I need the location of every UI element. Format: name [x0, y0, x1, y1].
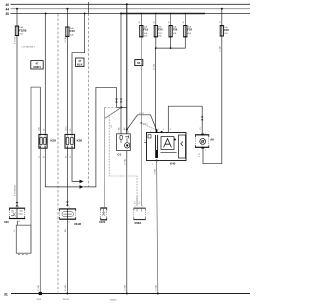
svg-text:16: 16 [18, 221, 20, 223]
svg-text:X58/1: X58/1 [134, 221, 142, 225]
svg-text:( 15 RD/WS ): ( 15 RD/WS ) [22, 47, 35, 49]
node on bus3 x84.6 [84, 13, 86, 15]
svg-text:125.3: 125.3 [143, 124, 149, 126]
node x126.8 y129.6 [126, 129, 128, 131]
K40 bottom pin [156, 160, 158, 162]
node x157.8 ground [157, 293, 159, 295]
fuse F19 [140, 26, 149, 38]
wire from arrow to riser [84, 87, 117, 187]
svg-text:1: 1 [142, 206, 143, 208]
fuse F43 labels [70, 27, 75, 36]
shielded branch bracket [109, 117, 137, 197]
svg-text:30: 30 [168, 21, 170, 23]
svg-text:4: 4 [150, 131, 151, 133]
svg-text:2: 2 [205, 150, 206, 152]
diagonal to shielded branch [105, 107, 122, 118]
fuse F32/8 [15, 26, 18, 35]
svg-text:1.5 BN: 1.5 BN [125, 158, 127, 165]
fuse top wire labels [139, 21, 185, 23]
wire X30 to ground box [16, 221, 18, 225]
svg-text:61: 61 [137, 61, 141, 65]
connector tick on wire x17 [16, 202, 19, 206]
fuse rail [156, 37, 186, 130]
fuse F53 [184, 26, 193, 37]
svg-text:47: 47 [78, 59, 81, 63]
dashed boundary x88.4 [87, 14, 89, 187]
svg-text:F24: F24 [158, 28, 163, 32]
svg-text:W66/4: W66/4 [110, 300, 117, 302]
svg-text:30: 30 [183, 21, 185, 23]
node on bus2 x17 [16, 8, 18, 10]
bus 15 (top rail 3) [11, 13, 251, 15]
svg-text:1: 1 [118, 132, 119, 134]
svg-text:OGU: OGU [66, 126, 68, 131]
relay K58 [39, 134, 47, 148]
svg-text:W10: W10 [37, 299, 42, 301]
fuse F24 [154, 26, 163, 38]
wire drop to fuse F58 [221, 9, 223, 26]
wire K58 right bottom to connector arrow [45, 148, 79, 187]
fuse F43 [66, 27, 69, 36]
wire stub above bus1 x88.4 [87, 2, 89, 14]
horn G1 [117, 134, 131, 151]
wire below F19 (grey) to X58 [140, 37, 142, 206]
svg-text:1.5 BK: 1.5 BK [219, 45, 221, 52]
svg-text:K58: K58 [50, 139, 56, 143]
wire fuse F32/8 drop [16, 9, 18, 26]
wire below F32/8 to X30 [16, 36, 18, 208]
svg-text:1: 1 [18, 206, 19, 208]
fuse F26 [169, 26, 178, 37]
wire K56 left bottom to X34/8 [66, 148, 68, 207]
wire bus3 to relay K58 pin [44, 14, 46, 134]
fuse F58 [220, 26, 229, 36]
svg-text:X30: X30 [4, 220, 9, 224]
svg-text:2: 2 [135, 206, 136, 208]
connector on X34/8 top wire [66, 202, 69, 206]
svg-text:30: 30 [6, 12, 10, 16]
pin texts K56 [66, 126, 73, 158]
jumper trapezoid [127, 113, 157, 130]
svg-text:31: 31 [4, 292, 8, 296]
fuse F32/8 labels [19, 26, 27, 35]
wire K40 pin8 to siren A6 [168, 106, 202, 134]
wire below F43 [66, 36, 68, 133]
fuse row drops from bus3 [141, 13, 187, 26]
label box 47 BLK [76, 58, 84, 67]
svg-text:A6: A6 [210, 137, 214, 141]
svg-text:2.5 RD: 2.5 RD [153, 63, 155, 70]
svg-text:2: 2 [128, 132, 129, 134]
dashed shield top edge [105, 106, 121, 108]
fuse end caps [15, 25, 224, 37]
node x126.8 ground [126, 293, 128, 295]
connector X58 [133, 206, 145, 220]
dashed wire into X58 pin1 [136, 197, 138, 207]
svg-text:W10/2: W10/2 [63, 299, 70, 301]
svg-text:1.5 BN: 1.5 BN [125, 284, 127, 291]
relay K56 [65, 134, 75, 148]
svg-text:X120: X120 [99, 220, 106, 224]
duct lines top edge [31, 87, 40, 253]
svg-text:8: 8 [170, 129, 171, 131]
svg-text:G1: G1 [117, 153, 121, 157]
node on bus2 x221.8 [221, 8, 223, 10]
node at K40 pin top [156, 129, 158, 131]
wire bus3 to G1 pin1 [120, 14, 122, 135]
dashed boundary x58 [57, 14, 59, 292]
svg-text:1.0 BN: 1.0 BN [154, 168, 156, 175]
svg-text:7: 7 [152, 164, 153, 166]
connector on A6 feed [201, 117, 204, 121]
wire bus1 to G1 pin2 [126, 4, 128, 134]
svg-text:0.75 RD/GN: 0.75 RD/GN [14, 185, 16, 196]
svg-text:10A: 10A [70, 33, 74, 36]
svg-text:F43: F43 [70, 29, 75, 33]
wire K58 left pin from duct [39, 87, 41, 134]
svg-text:15A: 15A [19, 33, 23, 36]
svg-text:K56: K56 [77, 139, 83, 143]
svg-text:X34/8: X34/8 [74, 222, 82, 226]
junction node x121.3 y107.4 [120, 106, 122, 108]
connector X120 [100, 207, 107, 220]
control unit K40 [144, 129, 186, 166]
siren A6 [195, 133, 209, 152]
wire G1 bottom to ground bus [126, 151, 128, 294]
dashed drop to X120 [104, 107, 106, 207]
svg-text:120.1: 120.1 [139, 113, 145, 115]
svg-text:K40: K40 [170, 161, 176, 165]
boxed label 61 [135, 60, 143, 66]
connector X34/8 [59, 207, 76, 224]
svg-text:40: 40 [6, 3, 10, 7]
dotted diagonal to K40 pin [141, 123, 156, 130]
bus 30 (top rail 1) [11, 3, 251, 5]
svg-text:2.5 BN: 2.5 BN [65, 284, 67, 291]
svg-text:30: 30 [139, 21, 141, 23]
svg-text:47: 47 [36, 61, 39, 65]
wire K40 to ground bus [157, 161, 158, 294]
svg-text:GMP4: GMP4 [33, 65, 41, 69]
wire drop to fuse F43 [66, 9, 68, 27]
wire X34/8 to ground bus [66, 220, 68, 294]
connector X30 [9, 206, 25, 223]
connector on x121 [120, 99, 123, 103]
wire jog from bus3 to relay K56 right pin [72, 14, 85, 134]
pin texts K58 [38, 127, 46, 158]
terminal square W10 [39, 292, 42, 295]
node on bus3 x121 [120, 13, 122, 15]
wire labels above G1 [119, 127, 127, 130]
svg-text:5: 5 [69, 207, 70, 209]
node on bus3 x45.8 [45, 13, 47, 15]
svg-text:F53: F53 [187, 28, 192, 32]
svg-text:0.75 RD: 0.75 RD [14, 36, 16, 44]
node on bus1 x126.8 [126, 3, 128, 5]
svg-text:5: 5 [69, 222, 70, 224]
wire K56 right bottom to connector arrow [72, 148, 80, 181]
wire below F58 to A6 loop [203, 36, 222, 164]
svg-text:BLK: BLK [77, 62, 83, 66]
svg-text:2: 2 [158, 129, 159, 131]
svg-text:1.0 BN: 1.0 BN [156, 284, 158, 291]
label box 47 GMP4 [31, 61, 43, 69]
wire K58 left bottom to ground bus [39, 148, 41, 292]
svg-text:F32/8: F32/8 [19, 28, 27, 32]
ground bus 31 [11, 293, 250, 295]
svg-text:F58: F58 [224, 28, 229, 32]
node on F19 wire [140, 122, 142, 124]
svg-text:2.5 BN: 2.5 BN [38, 284, 40, 291]
node on bus2 x67.4 [66, 8, 68, 10]
ground box W10 [16, 225, 31, 254]
node x67.4 ground [66, 293, 68, 295]
svg-text:F19: F19 [143, 28, 148, 32]
connector arrow pair [80, 180, 84, 189]
svg-text:F26: F26 [173, 28, 178, 32]
bus 30a (top rail 2) [11, 8, 251, 10]
bus 15 bold segment [121, 13, 205, 15]
svg-text:1: 1 [205, 133, 206, 135]
svg-text:44: 44 [6, 7, 10, 11]
svg-text:30: 30 [154, 21, 156, 23]
svg-text:1: 1 [144, 140, 145, 142]
short wire x116.5 with connector [115, 87, 118, 107]
svg-text:6: 6 [163, 129, 164, 131]
